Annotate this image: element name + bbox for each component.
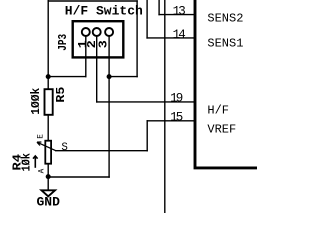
svg-text:SENS1: SENS1	[207, 37, 243, 51]
wire JP3 pin2 riser	[96, 36, 98, 102]
JP3 pad circle 1	[82, 28, 90, 36]
junction dot at pin3 net	[107, 74, 112, 79]
potentiometer adjust up arrow	[33, 156, 38, 168]
svg-text:13: 13	[173, 4, 186, 18]
wire R5 to pot	[47, 116, 49, 140]
IC U1 outline (left edge and bottom edge)	[195, 0, 257, 168]
svg-text:1Øk: 1Øk	[20, 153, 33, 172]
wire wiper S horizontal	[56, 150, 147, 152]
svg-text:A: A	[38, 168, 46, 173]
potentiometer R4 wiper diagonal arrow	[37, 142, 56, 151]
connector JP3 box	[73, 21, 124, 57]
svg-text:SENS2: SENS2	[207, 11, 243, 25]
wire pin 15 horizontal	[147, 120, 194, 122]
wire left spine top	[47, 0, 49, 89]
junction dot at GND node	[46, 174, 51, 179]
svg-text:R5: R5	[55, 86, 68, 102]
wire JP3 pin1 riser	[85, 36, 87, 77]
resistor R5 body	[45, 89, 53, 115]
wire jumper seg1	[48, 76, 86, 78]
wire VREF step vertical	[146, 121, 148, 151]
wire H/F horizontal to pin 19	[97, 101, 194, 103]
svg-text:JP3: JP3	[57, 34, 70, 51]
JP3 pad circle 2	[93, 28, 101, 36]
wire net B vertical	[146, 0, 148, 38]
svg-text:14: 14	[173, 28, 186, 42]
svg-text:19: 19	[170, 92, 183, 106]
wire pot bottom to gnd	[47, 165, 49, 191]
svg-text:H/F Switch: H/F Switch	[65, 4, 143, 19]
wire net D vertical full height	[164, 0, 166, 213]
wire pin 14 horizontal	[147, 37, 194, 39]
svg-text:E: E	[37, 134, 45, 139]
wire pin 13 horizontal	[159, 14, 194, 16]
svg-text:15: 15	[170, 111, 183, 125]
svg-text:S: S	[61, 142, 67, 154]
svg-text:1ØØk: 1ØØk	[29, 88, 43, 115]
wire net A horizontal to node	[109, 76, 137, 78]
wire bottom horizontal to GND node	[48, 176, 109, 178]
svg-text:GND: GND	[37, 195, 61, 210]
JP3 pad circle 3	[105, 28, 113, 36]
svg-text:3: 3	[97, 40, 110, 48]
wire JP3 pin3 riser	[108, 36, 110, 177]
wire net A vertical	[136, 1, 138, 77]
svg-text:VREF: VREF	[207, 123, 236, 137]
wire top horizontal	[48, 0, 137, 2]
ground symbol	[42, 190, 56, 196]
svg-text:H/F: H/F	[207, 103, 229, 117]
junction dot at R5 top	[46, 74, 51, 79]
potentiometer R4 body	[45, 141, 51, 164]
wire net C vertical	[158, 0, 160, 15]
